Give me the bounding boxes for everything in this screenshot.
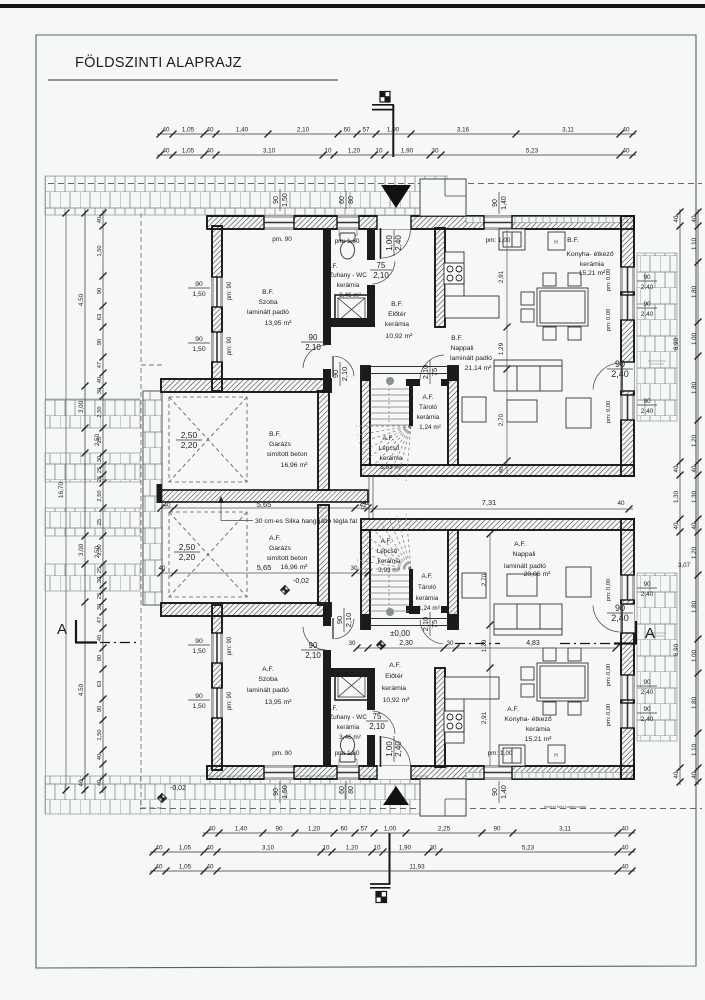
svg-text:30 cm-es Silka hanggátló tégla: 30 cm-es Silka hanggátló tégla fal [255,518,358,525]
svg-text:Előtér: Előtér [388,311,406,318]
svg-text:40: 40 [673,465,680,472]
svg-text:25: 25 [97,476,103,482]
svg-text:2,20: 2,20 [181,440,198,450]
svg-text:Zuhany - WC: Zuhany - WC [329,272,367,279]
svg-text:1,05: 1,05 [179,864,192,871]
svg-text:3,10: 3,10 [263,148,276,155]
svg-text:kerámia: kerámia [378,558,401,565]
svg-text:3,46 m²: 3,46 m² [339,734,361,741]
svg-text:2,10: 2,10 [305,343,321,352]
stair column lower [386,608,394,616]
right wall window 3 [620,395,634,420]
svg-text:1,40: 1,40 [236,127,249,134]
stairs upper [356,384,411,481]
svg-text:1,50: 1,50 [192,648,205,655]
svg-text:B.F.: B.F. [451,335,463,342]
entry door opening lower [377,765,411,779]
svg-text:40: 40 [673,771,680,778]
svg-text:16,96 m²: 16,96 m² [281,462,309,469]
svg-text:1,20: 1,20 [308,826,321,833]
svg-text:1,20: 1,20 [691,434,698,447]
shower tray upper [335,295,368,324]
svg-text:75: 75 [377,261,386,270]
garage width dim [158,500,372,512]
stair center wall lower [409,569,413,614]
svg-text:1,29: 1,29 [481,639,488,652]
left wall window labels upper [188,281,210,298]
svg-text:60: 60 [339,196,346,204]
right neighbour strip lower [637,573,677,741]
svg-text:40: 40 [499,467,505,473]
svg-text:63: 63 [97,314,103,320]
svg-text:1,05: 1,05 [179,845,192,852]
svg-text:pm: 0,00: pm: 0,00 [606,664,612,687]
sofa upper [494,360,562,391]
svg-text:1,80: 1,80 [691,381,698,394]
svg-text:40: 40 [621,826,629,833]
svg-text:40: 40 [155,864,163,871]
svg-text:2,50: 2,50 [181,430,198,440]
svg-text:1,05: 1,05 [182,148,195,155]
svg-text:47: 47 [97,362,103,368]
bath door swing upper [372,261,395,284]
svg-text:kerámia: kerámia [385,321,409,328]
svg-text:90: 90 [97,288,103,294]
svg-text:1,50: 1,50 [192,346,205,353]
right wall terrace door [620,362,634,391]
svg-text:25: 25 [97,519,103,525]
svg-text:simított beton: simított beton [267,451,308,458]
svg-text:kerámia: kerámia [417,414,440,421]
svg-text:10: 10 [322,845,330,852]
upper: insulation blocks along top wall [466,217,632,223]
right dim chain outer [691,209,702,786]
svg-text:építési hely határvonala: építési hely határvonala [544,804,587,809]
right dim chain inner [673,209,684,786]
left property line [45,176,47,814]
bath south wall upper [323,318,375,327]
svg-text:90: 90 [309,641,318,650]
eloter/nappali wall lower [435,668,445,767]
svg-text:5,65: 5,65 [257,500,272,509]
svg-text:80: 80 [348,786,355,794]
svg-text:A.F.: A.F. [421,573,432,580]
window 90/140 top wall kitchen [484,215,512,229]
svg-text:6,90: 6,90 [673,643,680,656]
section A left mark [75,620,140,643]
svg-text:3,10: 3,10 [262,845,275,852]
svg-text:90: 90 [195,281,203,288]
svg-text:Lépcső: Lépcső [377,548,398,555]
svg-text:40: 40 [206,864,214,871]
toilet lower [340,736,355,762]
svg-text:90: 90 [615,359,625,369]
svg-text:pm: 1,00: pm: 1,00 [488,750,513,757]
svg-text:40: 40 [97,217,103,223]
svg-text:40: 40 [691,465,698,472]
party wall left end cap [157,484,163,503]
svg-text:kerámia: kerámia [580,261,604,268]
svg-text:2,40: 2,40 [611,613,629,623]
eloter/nappali wall upper [435,228,445,327]
svg-text:1,50: 1,50 [282,785,289,799]
svg-text:pm. 90: pm. 90 [272,750,292,757]
svg-text:kerámia: kerámia [380,455,403,462]
toilet upper [340,233,355,259]
gap connector edges [369,476,373,519]
svg-text:90: 90 [97,655,103,661]
svg-text:pm: 1,60: pm: 1,60 [335,238,360,245]
canopy rect below entry lower [420,779,466,816]
eloter dim line lower [348,640,619,652]
svg-text:1,40: 1,40 [501,196,508,210]
svg-text:90: 90 [195,693,203,700]
lower unit: top wall [361,519,634,530]
svg-text:A: A [645,625,655,642]
svg-text:30: 30 [97,604,103,610]
svg-text:3,11: 3,11 [559,826,571,833]
svg-text:40: 40 [621,864,629,871]
left dim chain inner [97,210,107,794]
svg-text:±0,00: ±0,00 [390,629,411,638]
svg-text:10,92 m²: 10,92 m² [383,697,411,704]
upper garage east wall [318,391,329,490]
svg-text:2,20: 2,20 [179,552,196,562]
svg-text:A.F.: A.F. [327,706,338,712]
title underline [48,79,338,81]
tiny neighbour labels in right strips [648,361,666,636]
svg-text:3,16: 3,16 [457,127,470,134]
svg-text:6,90: 6,90 [673,337,680,350]
svg-text:90: 90 [643,581,651,588]
kitchen counter strip lower [445,677,499,743]
svg-text:3,93 m²: 3,93 m² [378,567,400,574]
svg-text:90: 90 [195,336,203,343]
svg-text:40: 40 [155,845,163,852]
svg-text:60: 60 [340,826,348,833]
svg-text:40: 40 [691,522,698,529]
svg-text:90: 90 [97,706,103,712]
top dimension row 1 [157,127,637,138]
svg-text:40: 40 [97,377,103,383]
svg-text:2,50: 2,50 [94,545,101,558]
lower unit: front band (szoba+garage) [161,603,331,616]
lower unit: right wall [621,519,634,779]
svg-text:1,20: 1,20 [348,148,361,155]
svg-text:10: 10 [324,148,332,155]
svg-text:1,80: 1,80 [691,600,698,613]
svg-text:Zuhany - WC: Zuhany - WC [329,714,367,721]
left neighbour wall blocks [45,399,140,428]
upper unit: right wall [621,216,634,476]
svg-text:1,50: 1,50 [97,245,103,256]
svg-text:kerámia: kerámia [526,726,550,733]
window 90/140 bottom wall kitchen [484,765,512,779]
garage porch door label upper [331,362,349,386]
entry door leaf+swing upper [380,228,382,259]
upper unit: front band (szoba+garage) [161,379,331,392]
svg-text:pm: 0,00: pm: 0,00 [606,579,612,602]
svg-text:90: 90 [643,301,651,308]
svg-text:15,21 m²: 15,21 m² [525,736,553,743]
svg-text:2,40: 2,40 [641,311,654,318]
armchair upper right [566,398,591,428]
svg-text:4,50: 4,50 [78,683,85,696]
svg-text:2,10: 2,10 [340,367,349,382]
bath north wall lower [323,668,375,677]
svg-text:30: 30 [97,456,103,462]
szoba door gap + swing upper [323,345,331,369]
stair door label upper [421,360,439,384]
coffee table lower [507,574,537,596]
terrace door label upper [607,359,633,379]
svg-text:40: 40 [622,148,630,155]
svg-text:pm: 0,00: pm: 0,00 [606,269,612,292]
svg-text:1,40: 1,40 [235,826,248,833]
svg-text:1,50: 1,50 [192,703,205,710]
svg-text:1,05: 1,05 [182,127,195,134]
svg-text:1,50: 1,50 [192,291,205,298]
svg-text:2,10: 2,10 [369,722,385,731]
svg-text:40: 40 [162,127,170,134]
svg-text:2,30: 2,30 [399,640,413,647]
svg-text:75: 75 [430,620,439,628]
svg-text:5,23: 5,23 [526,148,539,155]
svg-text:5,65: 5,65 [257,563,272,572]
svg-text:1,24 m²: 1,24 m² [419,424,441,431]
svg-text:kerámia: kerámia [337,724,360,731]
fridge upper [548,232,565,250]
svg-text:90: 90 [643,706,651,713]
upper unit: left wall [212,226,222,391]
szoba door gap + swing lower [323,626,331,650]
svg-text:Nappali: Nappali [450,345,474,352]
svg-text:2,70: 2,70 [498,413,505,426]
svg-text:pm: 90: pm: 90 [227,636,233,655]
svg-text:1,80: 1,80 [691,285,698,298]
svg-text:1,00: 1,00 [691,649,698,662]
top pavement brick band [45,176,447,215]
svg-text:40: 40 [97,635,103,641]
svg-text:20,06 m²: 20,06 m² [524,571,552,578]
svg-text:pm: 0,00: pm: 0,00 [606,704,612,727]
scan top edge [0,4,705,8]
svg-text:kerámia: kerámia [416,595,439,602]
svg-text:25: 25 [97,593,103,599]
left dim chain outer 16,70 [58,210,70,794]
svg-text:A.F.: A.F. [262,666,274,673]
stairs lower [356,514,411,611]
svg-text:60: 60 [339,786,346,794]
svg-text:40: 40 [622,127,630,134]
svg-text:2,40: 2,40 [641,689,654,696]
upper stair tower west wall [361,366,370,465]
kitchen counter strip upper [445,252,499,318]
garage door size label upper [176,430,202,450]
lower stair tower west wall [361,530,370,629]
svg-text:1,00: 1,00 [385,741,394,757]
svg-text:2,50: 2,50 [94,433,101,446]
svg-text:laminált padló: laminált padló [247,309,289,316]
svg-text:4,50: 4,50 [78,293,85,306]
svg-text:Garázs: Garázs [269,545,292,552]
svg-text:2,40: 2,40 [641,408,654,415]
svg-text:10: 10 [375,148,383,155]
svg-text:90: 90 [615,603,625,613]
svg-text:pm. 90: pm. 90 [272,236,292,243]
garage door swing rect upper [169,397,247,482]
svg-text:75: 75 [373,712,382,721]
gap dim 7,31 [361,498,633,513]
svg-text:pm: 90: pm: 90 [227,281,233,300]
svg-text:42: 42 [362,500,370,507]
svg-text:A.F.: A.F. [514,541,526,548]
svg-text:1,10: 1,10 [691,743,698,756]
kitchen interior dim upper [498,230,511,476]
svg-text:90: 90 [492,788,499,796]
szoba door label upper [301,333,325,352]
window left wall 1 [211,277,222,307]
szoba door label lower [301,641,325,660]
svg-text:57: 57 [360,826,368,833]
svg-text:pm: 90: pm: 90 [227,691,233,710]
bath door label lower [366,712,388,731]
svg-text:40: 40 [621,845,629,852]
svg-text:40: 40 [673,215,680,222]
svg-text:A.F.: A.F. [382,435,393,442]
svg-text:40: 40 [78,779,85,786]
svg-text:A.F.: A.F. [269,535,281,542]
svg-text:-0,02: -0,02 [170,785,186,792]
svg-text:75: 75 [430,368,439,376]
svg-text:80: 80 [348,196,355,204]
svg-text:40: 40 [163,502,171,509]
svg-text:60: 60 [343,127,351,134]
svg-text:90: 90 [492,199,499,207]
svg-text:Garázs: Garázs [269,441,292,448]
svg-text:40: 40 [158,565,166,572]
right wall terrace door lower [620,604,634,633]
svg-text:1,90: 1,90 [399,845,412,852]
right wall window 1 [620,267,634,292]
svg-text:7,31: 7,31 [482,498,497,507]
svg-text:63: 63 [97,681,103,687]
garage door from porch lower [335,619,355,639]
right wall window labels upper [637,274,657,291]
coffee table upper [507,400,537,422]
svg-text:1,80: 1,80 [691,696,698,709]
lower stair tower east wall [448,530,458,629]
svg-text:H: H [554,240,558,246]
svg-text:2,40: 2,40 [394,235,403,251]
svg-text:Tároló: Tároló [418,584,437,591]
svg-text:B.F.: B.F. [262,289,274,296]
svg-text:Konyha- étkező: Konyha- étkező [504,716,551,723]
lower garage width dim [158,563,372,585]
svg-text:10,92 m²: 10,92 m² [386,333,414,340]
window 90/150 bottom wall [264,765,294,779]
svg-text:47: 47 [97,617,103,623]
svg-text:90: 90 [643,398,651,405]
upper stair tower top edge [370,367,448,374]
stair center wall upper [409,381,413,426]
svg-text:2,91: 2,91 [498,270,505,283]
svg-text:2,50: 2,50 [179,542,196,552]
lower garage east wall [318,505,329,605]
armchair upper left [462,397,486,422]
svg-text:15,21 m²: 15,21 m² [579,270,607,277]
svg-text:13,95 m²: 13,95 m² [265,699,293,706]
stair column upper [386,377,394,385]
fridge lower [548,745,565,763]
svg-text:1,50: 1,50 [282,193,289,207]
svg-text:1,00: 1,00 [691,332,698,345]
svg-text:laminált padló: laminált padló [247,687,289,694]
svg-text:1,00: 1,00 [387,127,400,134]
svg-text:2,50: 2,50 [97,490,103,501]
site boundary dashed bottom [140,808,702,810]
right neighbour strip upper [637,253,677,421]
svg-text:Lépcső: Lépcső [379,445,400,452]
svg-text:simított beton: simított beton [267,555,308,562]
window 60/80 bottom wall (bath) [337,765,359,779]
svg-text:3,00: 3,00 [78,543,85,556]
kitchen interior dim lower [481,531,494,767]
svg-text:1,29: 1,29 [498,342,505,355]
garage door swing rect lower [169,512,247,597]
svg-text:90: 90 [273,788,280,796]
svg-text:90: 90 [643,679,651,686]
chairs upper [543,273,556,286]
svg-text:2,70: 2,70 [481,573,488,586]
bath west wall upper [323,229,331,391]
svg-text:5,23: 5,23 [522,845,535,852]
svg-text:2,10: 2,10 [373,271,389,280]
sofa lower [494,604,562,635]
svg-text:B.F.: B.F. [391,301,403,308]
bottom dimension row 2 [150,845,636,856]
svg-text:Szoba: Szoba [258,676,277,683]
svg-text:A.F.: A.F. [422,394,433,401]
left dim chain middle [78,210,89,794]
svg-text:1,90: 1,90 [401,148,414,155]
svg-text:kerámia: kerámia [382,685,406,692]
svg-text:40: 40 [617,500,625,507]
svg-text:30: 30 [429,845,437,852]
svg-text:30: 30 [446,640,454,647]
entry door opening upper [377,215,411,229]
svg-text:2,40: 2,40 [641,591,654,598]
svg-text:laminált padló: laminált padló [504,563,546,570]
canopy rect above entry [420,179,466,216]
svg-text:2,50: 2,50 [97,406,103,417]
svg-text:90: 90 [97,339,103,345]
site boundary dashed top [48,183,702,185]
svg-text:B.F.: B.F. [567,237,579,244]
svg-text:90: 90 [493,826,501,833]
section mark B top [372,92,394,158]
svg-text:2,10: 2,10 [305,651,321,660]
svg-text:Tároló: Tároló [419,404,438,411]
svg-text:3,11: 3,11 [562,127,574,134]
svg-text:2,40: 2,40 [611,369,629,379]
svg-text:Konyha- étkező: Konyha- étkező [566,251,613,258]
entrance triangle upper [381,185,411,208]
svg-text:1,20: 1,20 [691,546,698,559]
svg-text:2,10: 2,10 [421,365,430,380]
svg-text:pm: 0,00: pm: 0,00 [606,309,612,332]
entrance triangle lower [383,786,409,805]
